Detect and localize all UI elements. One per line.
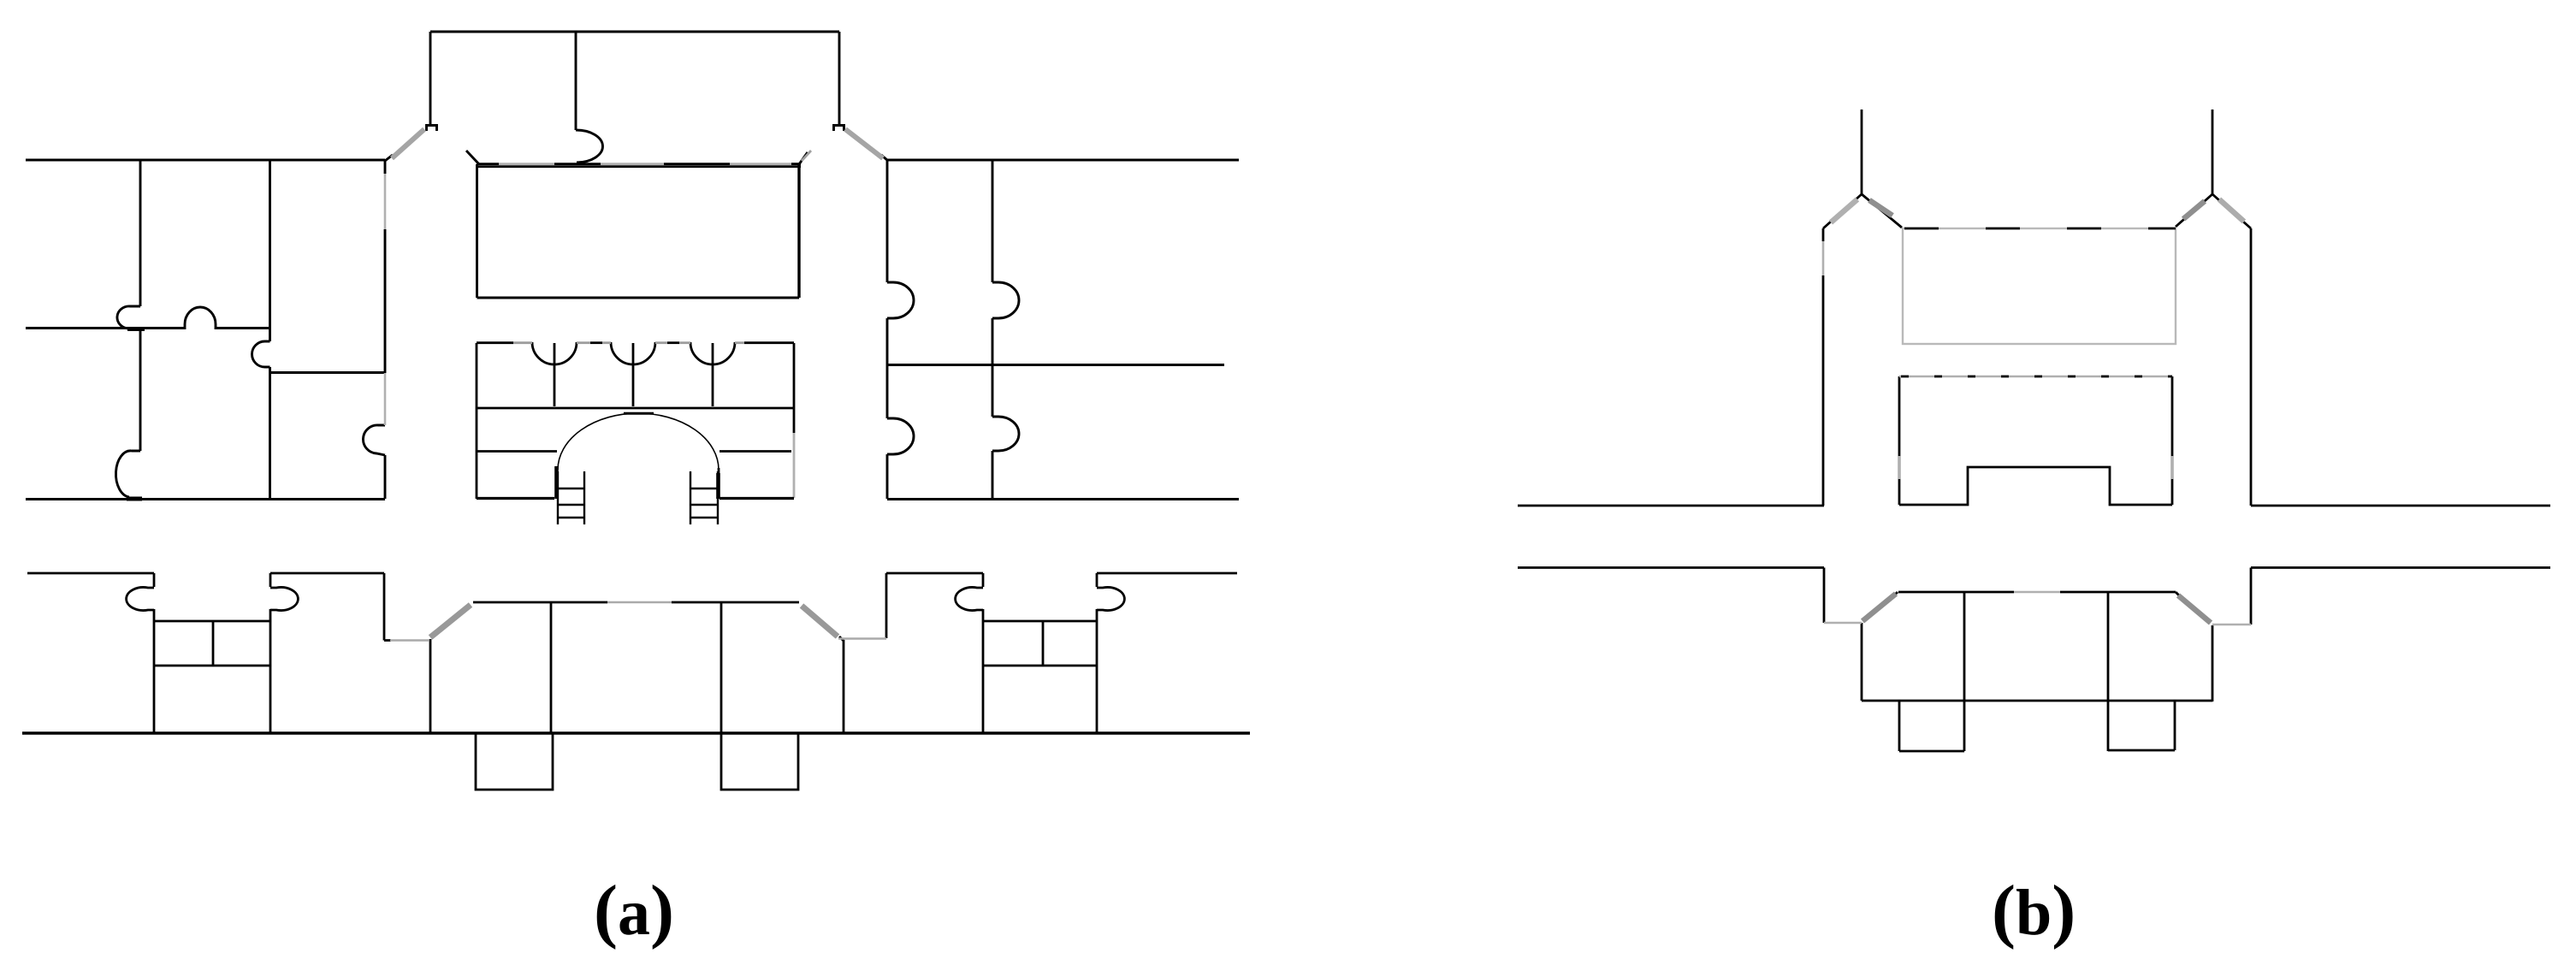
antenna: right top vertical (2212, 110, 2214, 194)
box: left entrance top edge (154, 620, 270, 623)
stair rail: right ladder left rail (690, 471, 691, 524)
wall: room divider y=435.5 (270, 371, 386, 374)
wall: vertical x=1037 seg3 (886, 454, 889, 499)
wall: bottom-right wall of upper section y=583.5 (887, 498, 1239, 500)
building: inner vertical 1 (1963, 592, 1966, 751)
wall: central top edge black 1 (477, 341, 513, 344)
wall: step x=1282 up (1096, 573, 1099, 587)
window: rect top edge gray segment 2 (601, 163, 664, 165)
wall: vertical below right jamb (718, 468, 720, 499)
wall: corridor top wall y=704 left (473, 601, 607, 604)
roof tick: building top-right corner (2176, 592, 2179, 595)
wall: bottom section top wall y=670 far-right (1097, 572, 1237, 575)
stair rung: left ladder rung 3 (558, 517, 584, 518)
window: hall rect right edge gray segment (2171, 456, 2174, 479)
wall: room divider x=503 below corridor (429, 639, 432, 733)
wall: rectangle bottom edge (477, 297, 800, 299)
door leaf: vertical at x=740 (632, 343, 635, 406)
arch jamb: left thick (554, 466, 559, 499)
door leaf: vertical at x=833 (712, 343, 714, 406)
wall: vertical below left jamb (556, 468, 559, 499)
window: rect top edge black segment 1 (477, 163, 499, 165)
wall: inner wall y=527.5 left (477, 450, 557, 453)
stair rung: left ladder rung 1 (558, 488, 584, 489)
stair rung: right ladder rung 2 (690, 504, 718, 506)
door diagonal: right peak left gray (2183, 201, 2205, 219)
stair rung: right ladder rung 1 (690, 488, 718, 489)
label (a) (594, 869, 674, 952)
wall: inner wall y=527.5 right (720, 450, 791, 453)
door arc: swing from middle vertical onto hall (576, 130, 602, 163)
stair rung: left ladder rung 2 (558, 504, 584, 506)
box: right entrance divider (1042, 621, 1045, 666)
wall: step x=316 up (269, 573, 272, 587)
wall: left outer wall main black (1822, 275, 1825, 506)
door arc: bump left on x=315.5 (252, 341, 270, 367)
window: gray stub y=748.5 left (390, 639, 429, 642)
wall: vertical x=986 (843, 640, 845, 733)
label (b) (1992, 869, 2076, 952)
window: central top edge gray 2 (577, 341, 590, 344)
door arc: on x=164 at bottom wall (115, 451, 140, 497)
window: central top edge gray 6 (735, 341, 744, 344)
door arc: on x=164 at middle wall (117, 306, 140, 329)
wall: vertical x=315.5 lower (269, 367, 271, 499)
door arc: bump left on x=450 (363, 425, 385, 455)
wall: vertical x=450 segment 1 (384, 159, 387, 174)
window: rect top edge gray segment 1 (499, 163, 554, 165)
door tick: gray mark at rect top-right (802, 151, 811, 161)
hall rect: bottom with notch (1899, 467, 2172, 505)
wall: step down x=449 (383, 573, 386, 641)
door hook: left gray diagonal top staple (427, 126, 437, 132)
arch: thick cap at top (624, 412, 654, 415)
building: top edge gray middle (2014, 591, 2060, 594)
wall: room divider x=843 (720, 602, 723, 733)
street: lower line right span (2251, 566, 2550, 569)
porch: left porch left edge (1898, 701, 1901, 751)
door tick: black slash at rect top-right (799, 152, 808, 164)
wall: step down x=180 (153, 573, 156, 587)
wall: rectangle right edge (797, 164, 800, 298)
door diagonal: gray left entrance diagonal (392, 129, 424, 158)
window: central top edge gray 3 (602, 341, 611, 344)
street: upper line left span (1518, 505, 1824, 507)
roof line: right peak left branch black base (2176, 194, 2212, 227)
door arc: bump right on x=1160 lower (992, 417, 1019, 451)
door diagonal: left peak right gray (1869, 200, 1892, 216)
wall: middle wall right part to x=315 (216, 327, 269, 329)
wall: x=1149 through box to bottom (982, 609, 985, 733)
door diagonal: lower-right building diagonal (2178, 595, 2211, 623)
roof tick: building top-left corner (1894, 592, 1898, 595)
wall: top box middle vertical (575, 32, 577, 130)
box: left entrance divider (212, 621, 215, 666)
window: gray segment on x=450 lower (384, 373, 387, 425)
wall: top box left vertical (429, 32, 432, 125)
wall: left outer wall top black (1822, 228, 1825, 241)
stair rail: right ladder right rail (717, 471, 719, 524)
wall: rectangle left edge (476, 164, 478, 298)
wall: bottom-left wall of upper section y=583.5 (26, 498, 385, 500)
wall: vertical x=450 bottom segment (384, 455, 387, 499)
wall: x=180 through box to bottom (153, 609, 156, 733)
porch: left porch bottom (1899, 750, 1964, 753)
wall: right rooms divider y=423 (888, 364, 1224, 366)
window: rect top edge black segment 4 (791, 163, 801, 165)
wall: top box right vertical (838, 32, 841, 125)
wall: vertical x=315.5 upper (269, 159, 271, 341)
hall rect: right edge (2171, 376, 2174, 505)
window: rect top edge black segment 2 (554, 163, 601, 165)
door arc: semicircle bay 2 (611, 342, 655, 364)
wall: top box top edge (430, 31, 839, 33)
wall: long bottom wall y=857 (22, 731, 1250, 734)
stair rung: right ladder rung 3 (690, 517, 718, 518)
window: left outer wall gray segment (1822, 241, 1825, 275)
door leaf: vertical at x=648 (554, 343, 556, 406)
wall: left vertical x=164 lower (139, 329, 142, 451)
wall: central top edge black 3 (667, 341, 679, 344)
wall: bottom section top wall far-left y=670 (27, 572, 154, 575)
wire: black tick at right diagonal bottom (881, 155, 888, 161)
street step: thin gray left connector (1824, 622, 1862, 625)
porch: right porch bottom (2108, 749, 2175, 752)
door jamb blob: x=164 middle (127, 327, 145, 331)
window band: dashed black top of gray rect (1904, 228, 2176, 230)
wall: left step vertical (1823, 568, 1826, 624)
window: central structure right edge lower gray (793, 433, 796, 498)
door hook: right gray diagonal top staple (834, 126, 844, 132)
wall: room divider x=644 (550, 602, 553, 733)
arch: large elliptical archway (558, 413, 719, 470)
building: bottom edge (1862, 700, 2212, 702)
wall: x=316 through box to bottom (269, 609, 272, 733)
wall: top-right outer wall y=187 (886, 159, 1239, 162)
wall: central top edge black 4 (744, 341, 794, 344)
window band: gray base of hall rect top (1899, 376, 2172, 378)
building: right edge (2212, 625, 2214, 702)
door arc: left entrance right arc (270, 588, 298, 611)
box: left entrance inner shelf (154, 665, 270, 667)
window: rect top edge black segment 3 (664, 163, 730, 165)
building: left edge (1861, 623, 1863, 701)
wall: vertical x=1160 seg2 (992, 318, 994, 417)
wall: right step vertical (2250, 568, 2253, 625)
wall: central structure right edge upper (793, 343, 796, 433)
window: hall rect left edge gray segment (1898, 456, 1901, 479)
wall: bottom section top wall y=670 mid-left (270, 572, 384, 575)
wall: vertical x=1037 seg2 (886, 318, 889, 418)
wire: black tick at left diagonal bottom (385, 155, 393, 161)
roof line: right peak right branch black base (2212, 194, 2251, 228)
door arc: semicircle bay 1 (532, 342, 577, 364)
door arc: semicircle bay 3 (690, 342, 735, 364)
door diagonal: right peak right gray (2219, 199, 2244, 222)
porch: left below-wall rectangle (476, 734, 553, 790)
wall: central inner wall y=477 (477, 407, 794, 410)
wall: central bottom edge left (477, 497, 554, 500)
door diagonal: gray right of corridor (802, 606, 838, 636)
wall: central bottom edge right (720, 497, 794, 500)
door arc: right entrance left arc (956, 588, 983, 611)
stair rail: left ladder left rail (557, 471, 559, 524)
porch: right below-wall rectangle (721, 734, 798, 790)
window: gray segment on x=450 upper (384, 174, 387, 229)
building: top edge black left (1898, 591, 2014, 594)
wall: top-left outer wall y=187 (26, 159, 385, 162)
roof line: left peak left branch black base (1823, 194, 1862, 228)
door arc: right entrance right arc (1097, 588, 1124, 611)
wire: short black stub y=748.5 (384, 639, 391, 642)
antenna: left top vertical (1861, 110, 1863, 194)
building: inner vertical 2 (2107, 592, 2110, 751)
arch jamb: right thick (716, 473, 720, 499)
hall rect: left edge (1898, 376, 1901, 505)
door jamb blob: x=164 bottom (127, 497, 142, 501)
wall: bottom section top wall y=670 mid-right (886, 572, 983, 575)
building: top edge black right (2060, 591, 2176, 594)
street: upper line right span (2251, 505, 2550, 507)
wall: central structure left edge (476, 343, 478, 499)
door arc: bump right on x=1037 lower (887, 418, 914, 454)
wall: corridor top wall y=704 right (672, 601, 799, 604)
door arc: left entrance left arc (127, 587, 154, 610)
glass rectangle: light gray inner rect (1903, 228, 2176, 344)
wall: vertical x=1160 seg3 (992, 451, 994, 499)
wall: step up x=1036 (885, 573, 888, 638)
wall: vertical x=450 segment 2 (384, 229, 387, 373)
wire: black tick at right diagonal foot (839, 636, 844, 641)
wall: right outer wall (2250, 228, 2253, 506)
door diagonal: left peak left gray (1831, 199, 1857, 222)
window: corridor top wall gray middle (607, 601, 672, 604)
window band: dashed black top of hall rect (1901, 376, 2172, 378)
window: central top edge gray 4 (655, 341, 667, 344)
wall: x=1282 through box to bottom (1096, 609, 1099, 733)
street step: thin gray right connector (2212, 624, 2251, 626)
window: central top edge gray 5 (679, 341, 690, 344)
stair rail: left ladder right rail (583, 471, 585, 524)
porch: right porch right edge (2174, 701, 2176, 750)
wall: step down x=1149 (982, 573, 985, 587)
wall: middle-left wall y=383.5 (26, 327, 185, 329)
box: right entrance top edge (983, 620, 1097, 623)
roof line: left peak right branch black base (1862, 194, 1902, 228)
wall: vertical x=1160 seg1 (992, 159, 994, 282)
wall: central top edge black 2 (590, 341, 602, 344)
door arc: bump right on x=1160 upper (992, 282, 1019, 318)
door diagonal: gray right entrance diagonal (845, 129, 883, 158)
box: right entrance inner shelf (983, 665, 1097, 667)
door diagonal: lower-left building diagonal (1862, 594, 1896, 621)
window: gray stub y=746 right (838, 637, 886, 640)
door arc: bump right on x=1037 upper (887, 282, 914, 318)
window: central top edge gray 1 (513, 341, 532, 344)
door arc: bump above middle wall (185, 307, 216, 329)
wall: left vertical x=164 upper (139, 159, 142, 306)
door tick: black backslash at rect top-left (466, 151, 479, 164)
door diagonal: gray left of corridor (430, 605, 471, 637)
window: rect top edge gray segment 3 (730, 163, 791, 165)
wall: vertical x=1037 seg1 (886, 159, 889, 282)
street: lower line left span (1518, 566, 1824, 569)
wall: rect top edge base black line (477, 165, 801, 168)
